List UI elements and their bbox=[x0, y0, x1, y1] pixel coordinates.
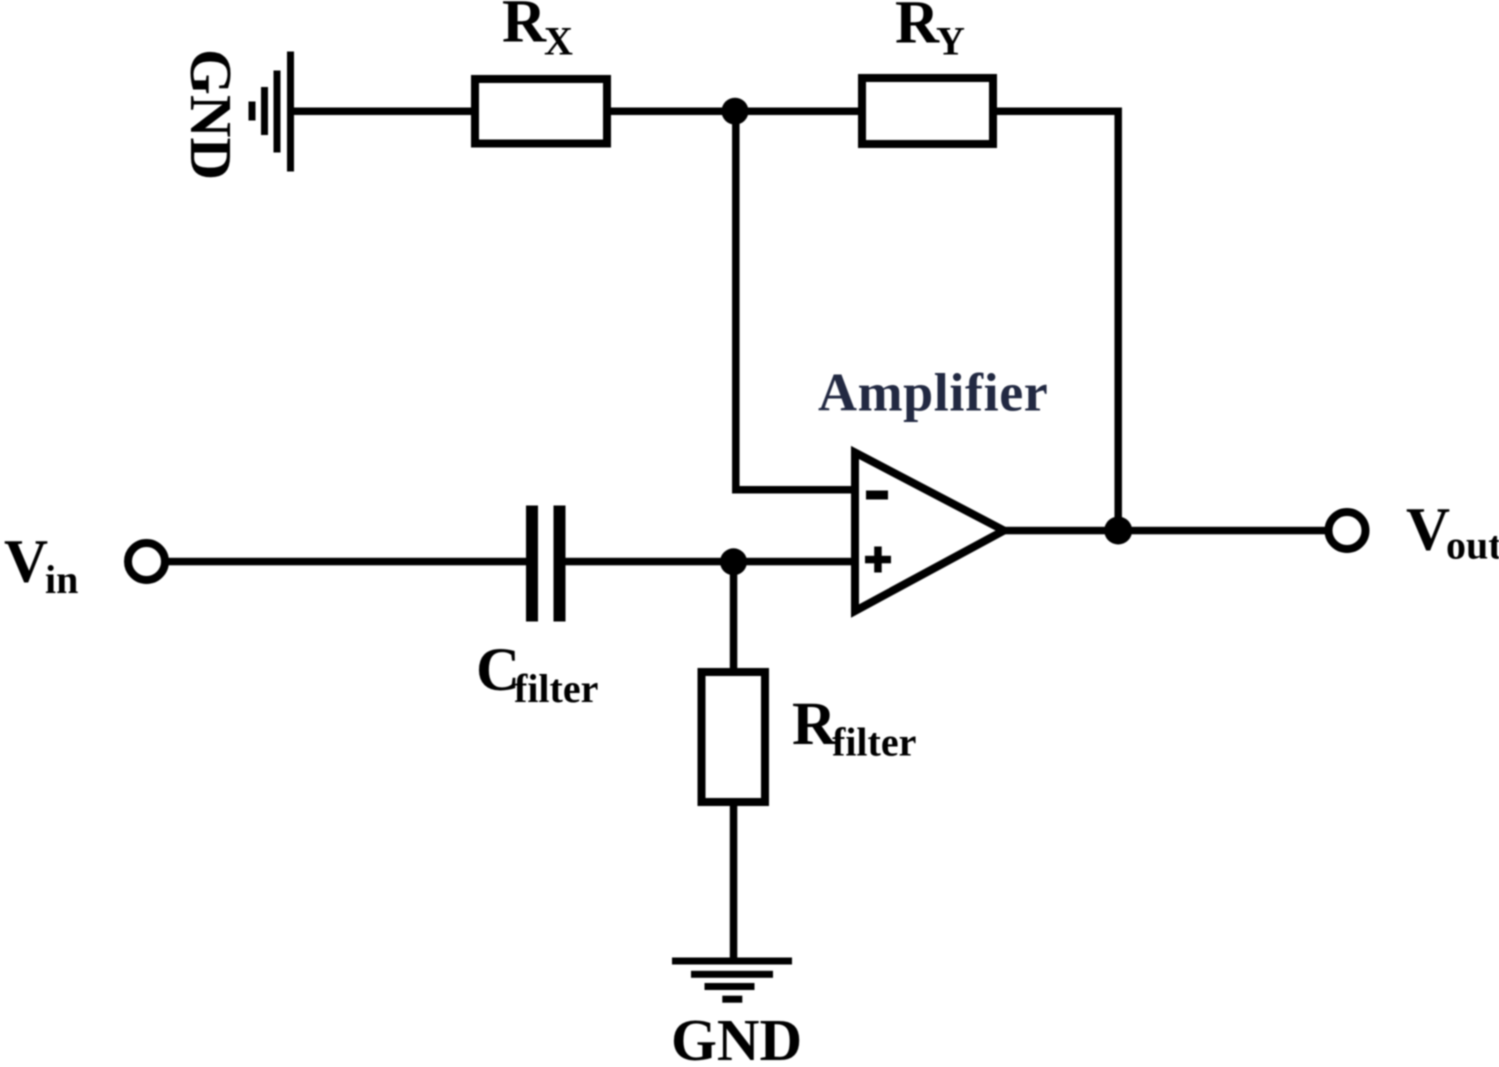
svg-text:V: V bbox=[4, 529, 48, 596]
label V_out bbox=[1406, 497, 1499, 568]
svg-text:R: R bbox=[502, 0, 547, 56]
svg-text:Y: Y bbox=[936, 19, 965, 64]
svg-text:out: out bbox=[1446, 523, 1499, 568]
label R_Y bbox=[895, 0, 965, 64]
svg-text:in: in bbox=[45, 557, 78, 602]
resistor R_filter bbox=[702, 672, 766, 802]
wire GND1 to RX bbox=[292, 108, 475, 116]
wire capacitor to node B and on to op-amp plus input bbox=[566, 558, 856, 566]
ground GND2 (bottom) bbox=[672, 958, 792, 1003]
svg-text:X: X bbox=[544, 19, 573, 64]
node B junction dot bbox=[720, 548, 747, 575]
svg-text:V: V bbox=[1406, 497, 1450, 564]
svg-text:Amplifier: Amplifier bbox=[818, 363, 1048, 423]
capacitor C_filter plates bbox=[526, 506, 566, 622]
wire Vin to capacitor bbox=[165, 558, 526, 566]
svg-text:GND: GND bbox=[178, 49, 244, 180]
resistor RX bbox=[475, 79, 607, 144]
terminal Vout bbox=[1329, 512, 1366, 549]
op-amp plus sign bbox=[865, 547, 891, 573]
wire op-amp output to Vout through node C bbox=[1004, 527, 1325, 535]
resistor RY bbox=[862, 78, 993, 144]
op-amp minus sign bbox=[866, 491, 888, 500]
label C_filter bbox=[476, 637, 598, 711]
wire RY to feedback corner down to node C bbox=[997, 111, 1118, 530]
svg-text:filter: filter bbox=[514, 666, 598, 711]
wire node A down and right to op-amp inverting input bbox=[736, 111, 855, 490]
terminal Vin bbox=[128, 543, 165, 580]
svg-text:R: R bbox=[895, 0, 940, 57]
svg-text:GND: GND bbox=[671, 1007, 802, 1067]
svg-text:R: R bbox=[792, 691, 837, 758]
node C junction dot bbox=[1104, 517, 1132, 545]
node A junction dot bbox=[722, 98, 749, 125]
ground GND1 (top-left) bbox=[249, 52, 295, 172]
label V_in bbox=[4, 529, 78, 603]
op-amp U1 triangle bbox=[855, 453, 1004, 612]
svg-text:filter: filter bbox=[832, 720, 916, 765]
wire RX to RY through node A bbox=[611, 108, 858, 116]
wire R_filter down to ground GND2 bbox=[730, 806, 738, 958]
wire node B down to R_filter bbox=[730, 562, 738, 670]
label R_filter bbox=[792, 691, 916, 765]
label R_X bbox=[502, 0, 573, 64]
